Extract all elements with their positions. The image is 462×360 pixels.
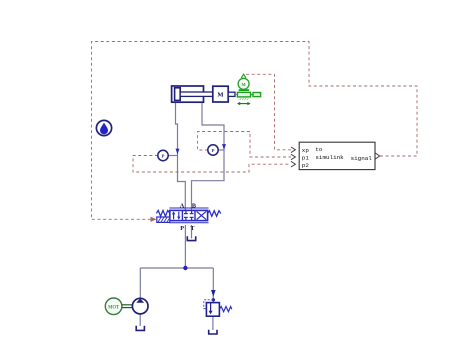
wire relief valve to tank xyxy=(212,316,214,330)
svg-text:P: P xyxy=(212,148,215,153)
input port arrow p1 xyxy=(291,154,295,160)
pressure relief valve xyxy=(204,300,220,316)
wire control-signal feedback loop (red dashed) xyxy=(92,42,418,220)
wire tee to pump xyxy=(139,268,141,298)
wire pump tee horizontal xyxy=(140,267,213,269)
svg-text:MOT: MOT xyxy=(108,305,120,310)
svg-text:P: P xyxy=(162,154,165,159)
svg-text:P: P xyxy=(180,225,184,232)
flow arrow on B wire xyxy=(222,144,226,150)
to-simulink-signal subsystem box xyxy=(299,142,375,169)
flow arrow into relief valve xyxy=(211,290,216,297)
flow arrow on A wire xyxy=(176,149,180,155)
svg-text:xp: xp xyxy=(302,147,310,154)
wire left gauge tap xyxy=(168,155,178,157)
hydraulic pump xyxy=(132,298,148,314)
wire valve P to pump tee xyxy=(184,225,186,268)
4-way directional valve xyxy=(169,208,208,223)
wire xp sensor signal (red dashed) xyxy=(246,74,291,150)
wire valve T to tank xyxy=(191,225,193,239)
valve right spring xyxy=(208,211,221,217)
input port arrow p2 xyxy=(291,161,295,167)
left cell straight-flow arrows xyxy=(173,213,175,219)
motor MOT xyxy=(105,298,122,315)
hydraulic cylinder (double-acting) xyxy=(172,86,213,102)
tank under pump xyxy=(136,326,144,331)
tank under valve T xyxy=(187,236,195,240)
centre cell blocked ports xyxy=(185,210,187,213)
wire cylinder port B to valve B (blue) xyxy=(192,102,225,210)
junction relief pilot xyxy=(212,298,215,301)
wire p1 gauge signal (red dashed) xyxy=(198,132,292,158)
svg-text:p1: p1 xyxy=(302,154,310,161)
svg-text:M: M xyxy=(217,91,223,98)
wire cylinder port A to valve A (blue) xyxy=(176,102,186,210)
wire right gauge tap xyxy=(218,149,224,151)
svg-text:to: to xyxy=(315,146,323,153)
svg-text:B: B xyxy=(192,202,196,209)
arrowhead into valve pilot xyxy=(151,217,157,222)
position sensor (ideal translational motion sensor) xyxy=(237,74,261,105)
wire tee to relief valve xyxy=(212,268,214,303)
valve left spring xyxy=(156,210,169,216)
mass block M xyxy=(213,86,238,102)
pressure gauge p2 (left) xyxy=(158,150,168,160)
right cell crossed-flow arrows xyxy=(197,211,207,219)
input port arrow xp xyxy=(291,147,295,153)
svg-text:A: A xyxy=(180,202,185,209)
valve proportional solenoid (hatched box) xyxy=(157,217,170,222)
pressure gauge p1 (right) xyxy=(208,145,218,155)
relief valve spring xyxy=(219,307,231,312)
hydraulic fluid block (droplet) xyxy=(96,120,111,135)
output port arrow xyxy=(375,153,380,159)
junction pump tee xyxy=(183,266,187,270)
svg-text:p2: p2 xyxy=(302,162,310,169)
wire p2 gauge signal (red dashed) xyxy=(133,156,291,173)
tank under relief valve xyxy=(209,330,217,334)
svg-text:signal: signal xyxy=(351,155,373,162)
shaft motor-pump xyxy=(122,305,133,308)
svg-text:simulink: simulink xyxy=(315,154,344,161)
wire pump to tank xyxy=(139,314,141,326)
